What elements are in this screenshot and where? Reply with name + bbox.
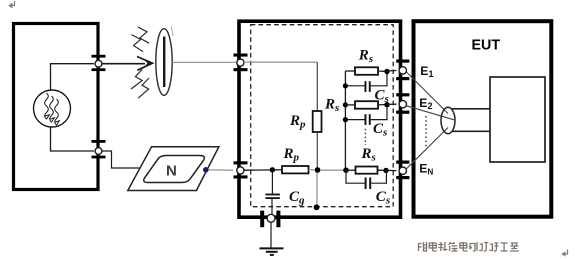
- feedthrough connector (middle box bottom): [260, 211, 280, 228]
- node dot on N plate (navy): [203, 167, 209, 173]
- capacitor Cs1 left lead: [345, 85, 364, 87]
- electrode lead E1 (diagonal): [406, 72, 448, 114]
- capacitor Cs2 left lead: [345, 119, 364, 121]
- radiating electrode ellipse: [156, 29, 172, 96]
- feedthrough connector (left box, upper): [92, 55, 106, 71]
- feedthrough connector EN: [396, 161, 409, 180]
- cable bundle ellipse: [441, 107, 455, 133]
- wire: junction B to ladder (gray): [320, 169, 344, 171]
- capacitor Cs2: [365, 114, 371, 125]
- node dot on dashed line: [314, 204, 320, 210]
- wire: N plate to coupling box (gray): [209, 169, 234, 171]
- feedthrough connector (middle box left, lower): [234, 161, 248, 178]
- junction dot row1: [384, 69, 389, 74]
- dotted line between E2 and EN: [425, 116, 427, 147]
- feedthrough connector (middle box left, upper): [234, 54, 248, 72]
- coupling/decoupling network box (middle): [239, 21, 401, 217]
- feedthrough connector (left box, lower): [92, 140, 106, 158]
- neutral plate N (inner rounded parallelogram): [144, 156, 205, 183]
- generator squiggle symbol: [45, 93, 60, 125]
- wire: source bottom to lower connector: [51, 127, 95, 151]
- wire resistor to junction dot B: [309, 169, 315, 171]
- junction dot B: [315, 167, 321, 173]
- wire dot to E2 connector: [387, 103, 397, 105]
- wire dot to E1 connector: [387, 70, 397, 73]
- ellipsis dotted line in ladder: [364, 129, 366, 145]
- EUT device block: [490, 77, 545, 162]
- wire: electrode to coupling box (gray): [172, 61, 236, 63]
- capacitor Cg lead: [271, 170, 273, 194]
- resistor Rs1: [355, 67, 378, 75]
- wire: upper connector to Rp branch (gray): [244, 61, 317, 63]
- Cs3 right lead: [371, 173, 386, 184]
- arrow wire to radiating electrode: [102, 57, 153, 71]
- wire: lower connector to N plate: [102, 151, 140, 168]
- lightning spark lower pair: [131, 69, 149, 98]
- junction dot row3: [383, 168, 388, 173]
- svg-text:N: N: [166, 162, 177, 179]
- EUT box: [414, 21, 552, 217]
- HF generator source circle: [34, 90, 71, 127]
- electrode lead E2 (diagonal): [406, 106, 454, 120]
- wire: junction B down to reference plane: [316, 173, 318, 206]
- junction dot row2: [384, 102, 389, 107]
- row 1: wire to Rs1: [345, 70, 355, 72]
- generator enclosure box (left): [14, 24, 99, 190]
- lightning spark upper pair: [131, 27, 149, 52]
- caption: simulated CJK 脑电标准电刀测试工装: [419, 242, 519, 251]
- wire dot to EN connector: [386, 169, 397, 171]
- paragraph return mark bottom-right: [561, 250, 567, 257]
- wire: Rp to junction: [316, 132, 318, 168]
- capacitor Cs3: [365, 178, 372, 190]
- capacitor Cs3 left lead: [346, 170, 365, 183]
- wire to Rs2: [345, 104, 355, 106]
- Cs1 right lead: [371, 74, 387, 86]
- wire to ground: [270, 222, 272, 248]
- rail dot row3: [343, 167, 349, 173]
- neutral plate N (outer parallelogram): [128, 147, 219, 191]
- main lower wire y=170: [244, 169, 272, 171]
- resistor Rp (vertical): [313, 111, 322, 132]
- wire: source top to upper connector: [51, 64, 95, 90]
- electrode blade bar: [163, 37, 165, 88]
- ground: [260, 248, 284, 255]
- capacitor Cg: [265, 194, 280, 199]
- wire: down to vertical Rp: [316, 62, 318, 111]
- stray mark above electrode: [171, 27, 173, 37]
- wire to Rp horizontal: [272, 169, 282, 171]
- dashed shield boundary: [251, 25, 394, 207]
- junction dot A: [270, 167, 275, 172]
- wire Rs3 to dot: [378, 169, 387, 171]
- wire Rs2 to dot: [378, 104, 387, 106]
- svg-text:EUT: EUT: [472, 38, 501, 54]
- capacitor Cs1: [365, 81, 371, 92]
- wire to Rs3: [346, 169, 356, 171]
- feedthrough connector E2: [396, 93, 409, 114]
- ladder left rail: [344, 71, 346, 170]
- cable bundle lines: [452, 108, 490, 110]
- resistor Rs3: [356, 167, 378, 174]
- rail dot cap2: [343, 117, 348, 122]
- row 2: rail dot: [343, 102, 348, 107]
- wire Rs1 to dot: [378, 70, 387, 73]
- wire: Cg to bottom feedthrough: [271, 199, 273, 214]
- feedthrough connector E1 (middle box right): [396, 60, 409, 81]
- resistor Rp (horizontal): [282, 166, 309, 173]
- rail dot cap1: [343, 83, 348, 88]
- paragraph return mark top-left: [8, 1, 14, 8]
- resistor Rs2: [355, 101, 378, 109]
- electrode lead EN (diagonal): [406, 128, 448, 169]
- Cs2 right lead: [371, 107, 387, 119]
